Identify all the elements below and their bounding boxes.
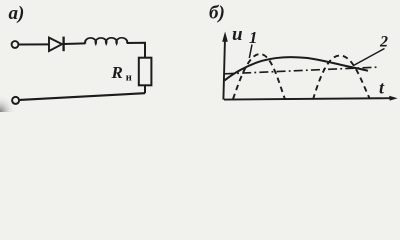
paper background [0, 0, 400, 112]
leader line for label 1 [249, 45, 252, 59]
curve 2 solid (smoothed output voltage) [225, 57, 369, 80]
svg-text:б): б) [209, 3, 225, 24]
diode VD (series rectifier) [49, 37, 64, 52]
svg-text:н: н [126, 73, 132, 84]
leader line for label 2 [354, 49, 385, 66]
wire (diode to inductor) [64, 42, 86, 45]
svg-text:R: R [111, 63, 123, 82]
curve 1 dashed pulse (second half-sine hump) [313, 56, 370, 100]
terminal (top left input) [12, 41, 19, 48]
svg-text:2: 2 [379, 34, 388, 51]
curve 1 dashed pulse (first half-sine hump) [233, 54, 285, 99]
svg-text:u: u [232, 24, 243, 45]
svg-text:1: 1 [249, 28, 258, 47]
svg-text:а): а) [9, 3, 25, 24]
scan shadow bottom-left corner [0, 94, 16, 112]
wire (bottom rail) [20, 93, 145, 100]
wire (resistor bottom down to bottom rail) [144, 85, 146, 93]
axis t (horizontal with arrow) [224, 98, 390, 99]
inductor L (smoothing choke, 4 loops) [85, 38, 127, 44]
axis u (vertical with arrow) [223, 38, 225, 100]
terminal (bottom left input) [12, 97, 19, 104]
wire (inductor to top-right corner and down) [127, 43, 145, 58]
resistor Rn (load) [139, 58, 152, 86]
wire (top, terminal to diode) [19, 43, 49, 45]
dash-dot average level line [225, 67, 377, 74]
